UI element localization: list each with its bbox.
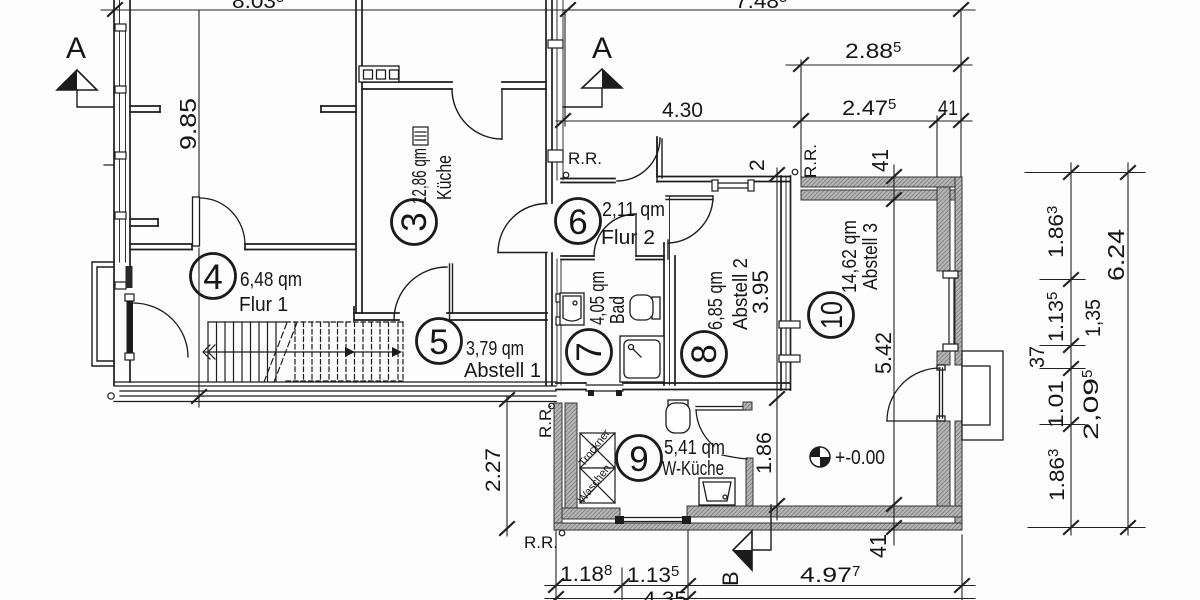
svg-text:Küche: Küche — [434, 155, 456, 200]
wire right connectors — [1025, 172, 1145, 174]
wire 2.27 dim line x507 — [506, 396, 508, 536]
svg-text:9.85: 9.85 — [175, 98, 201, 150]
wall Kueche south y317 — [354, 307, 547, 320]
svg-text:4.30: 4.30 — [662, 99, 703, 122]
svg-text:6,48 qm: 6,48 qm — [240, 269, 302, 291]
svg-text:5: 5 — [429, 323, 448, 362]
svg-text:Abstell 1: Abstell 1 — [464, 360, 541, 382]
wall Abstell2 east x781-800 — [781, 176, 791, 390]
wire extension x556 bottom — [555, 530, 557, 600]
radiator Kueche — [413, 127, 428, 145]
svg-text:14,62 qm: 14,62 qm — [839, 220, 861, 293]
window in Abstell2 north wall — [712, 180, 754, 191]
door Abstell2: leaf + arc — [666, 196, 713, 243]
door Flur2 to Bad: leaf + arc — [594, 214, 668, 259]
hatched wall Abstell3 east — [937, 177, 962, 530]
entry landing outside east — [962, 351, 1003, 440]
svg-text:9: 9 — [629, 440, 648, 479]
svg-text:1.86: 1.86 — [753, 432, 776, 474]
node section marker B bottom — [733, 531, 752, 570]
wall Bad/Abstell2 south y386 — [556, 383, 790, 390]
bottom wall of upper building y382-402 — [114, 382, 556, 402]
node circle 5 Abstell1 — [417, 319, 462, 364]
svg-text:5,41 qm: 5,41 qm — [664, 437, 725, 459]
chimney hatched block west wall — [126, 266, 133, 288]
door W-Kueche: leaf + arc — [696, 402, 752, 446]
toilet W-Kueche — [666, 400, 690, 433]
svg-text:6.24: 6.24 — [1103, 229, 1129, 281]
svg-text:2.27: 2.27 — [482, 448, 505, 492]
wall Abstell2 west x664-675 — [664, 196, 675, 385]
wall Abstell2 north y180 — [657, 137, 790, 182]
wall stub interior y108 left — [130, 106, 160, 112]
node circle 6 Flur2 — [556, 199, 601, 244]
svg-text:1.01: 1.01 — [1045, 380, 1068, 428]
door Kueche to Flur2: leaf + arc — [498, 204, 547, 253]
svg-text:4.977: 4.977 — [800, 563, 860, 587]
svg-text:8: 8 — [685, 344, 724, 363]
wire bottom dim line y585 — [545, 585, 975, 587]
svg-text:+-0.00: +-0.00 — [835, 447, 885, 469]
svg-text:41: 41 — [865, 534, 891, 558]
svg-text:A: A — [66, 32, 86, 65]
wire bottom dim line y598 — [545, 598, 975, 600]
stairs break dashed diagonals — [264, 320, 298, 382]
window block on east wall near Flur2 — [548, 40, 563, 162]
entry door arc — [133, 303, 188, 357]
svg-text:R.R.: R.R. — [524, 533, 558, 552]
node circle 7 Bad — [567, 330, 612, 375]
wall between big room and Kueche x356 — [356, 0, 362, 313]
node circle 8 Abstell2 — [682, 332, 727, 377]
hatched wall south (bottom) — [554, 506, 962, 530]
svg-text:4.35: 4.35 — [643, 588, 687, 600]
svg-text:A: A — [592, 32, 612, 65]
markers and misc symbols — [57, 32, 885, 586]
shower Bad — [620, 336, 664, 382]
washbasin Bad — [560, 293, 584, 325]
svg-text:3,79 qm: 3,79 qm — [466, 338, 524, 360]
svg-text:Bad: Bad — [607, 296, 629, 324]
svg-text:W-Küche: W-Küche — [662, 458, 724, 480]
wire 5.42/41 dim line x894 — [893, 165, 895, 545]
dimension verticals and chains — [192, 10, 1145, 600]
wire 2.88 dim line y65 — [786, 64, 972, 66]
toilet Bad — [630, 295, 660, 320]
wire extension x961 — [960, 10, 962, 177]
porch outline west — [92, 262, 114, 366]
svg-text:2.885: 2.885 — [845, 39, 901, 63]
wire 3.95/1.86 dim line x777 — [776, 168, 778, 520]
hatched wall W-Kueche west — [554, 403, 577, 530]
wire extension x962 bottom — [961, 535, 963, 600]
svg-text:3: 3 — [395, 212, 434, 231]
appliance box Waschen — [580, 468, 615, 503]
small circle at west end of bottom wall — [108, 393, 114, 399]
wire extension x937 — [936, 116, 938, 177]
svg-text:41: 41 — [867, 149, 893, 172]
window in Bad south wall — [586, 385, 623, 396]
dimension texts rotated — [175, 98, 1129, 558]
svg-text:Abstell 3: Abstell 3 — [860, 223, 882, 290]
wall Kueche north y85 right segment — [502, 82, 546, 89]
svg-text:R.R.: R.R. — [801, 144, 820, 178]
svg-text:41: 41 — [938, 97, 958, 120]
svg-text:4: 4 — [203, 258, 222, 297]
svg-text:2,11 qm: 2,11 qm — [602, 199, 665, 221]
kitchen sideboard 3 squares — [359, 66, 399, 82]
svg-text:Flur 1: Flur 1 — [239, 294, 288, 316]
svg-text:1,35: 1,35 — [1082, 299, 1105, 337]
window blocks Abstell1 east wall — [556, 294, 565, 325]
sink W-Kueche — [699, 478, 735, 505]
node circle 3 Kueche — [392, 200, 437, 245]
wall separation x546-563 (Kueche east / Flur2+Bad west) — [546, 0, 563, 385]
wall left exterior (west) of big room — [114, 0, 130, 385]
window blocks Abstell2 east wall — [779, 321, 800, 362]
node level marker +-0.00 — [810, 447, 885, 469]
svg-text:7: 7 — [570, 342, 609, 361]
svg-text:2,095: 2,095 — [1079, 370, 1103, 440]
svg-text:10: 10 — [814, 301, 849, 329]
svg-text:4,05 qm: 4,05 qm — [587, 271, 609, 325]
dimension texts horizontal — [560, 39, 958, 600]
svg-text:5.42: 5.42 — [871, 332, 896, 374]
wall Flur2 north y180 — [561, 179, 615, 183]
wall Flur1 north y246 — [130, 244, 356, 250]
appliance box Trockner — [580, 433, 615, 468]
wall stub W-Kueche east x746-753 — [746, 458, 753, 506]
window sill blocks on west wall — [115, 24, 126, 289]
door Abstell1: leaf + arc — [394, 264, 453, 320]
wall stub interior y108 right — [321, 106, 356, 112]
stairs lower flight solid treads — [208, 322, 286, 381]
svg-text:2: 2 — [746, 159, 769, 171]
stairs walk line with arrows — [203, 345, 402, 359]
wire extension x688 bottom — [687, 530, 689, 600]
wall Flur2/Bad y257 — [561, 256, 664, 260]
svg-text:6: 6 — [568, 203, 587, 242]
leader line from label to door — [722, 455, 747, 459]
window in south wall of W-Kueche area — [615, 516, 691, 524]
node circle 4 Flur1 — [191, 254, 236, 299]
wire extension x801 — [800, 60, 802, 177]
window Abstell3 east wall — [943, 271, 958, 351]
wire extension x565 top — [564, 10, 566, 126]
room labels — [191, 148, 883, 481]
wire mark west y165 — [104, 164, 114, 166]
svg-text:6,85 qm: 6,85 qm — [705, 271, 727, 330]
svg-text:37: 37 — [1026, 346, 1049, 368]
svg-text:12,86 qm: 12,86 qm — [409, 148, 431, 204]
wire top dimension line 8.03/7.48 — [101, 3, 975, 16]
door Flur1/big room: leaf + arc — [193, 197, 246, 246]
svg-text:Abstell 2: Abstell 2 — [730, 258, 752, 330]
door Kueche north: leaf and arc — [452, 89, 502, 139]
wall Kueche north y85 left segment with pass-through — [362, 82, 452, 89]
node circle 10 Abstell3 — [809, 293, 854, 338]
wall stub window-side y222 — [130, 219, 158, 226]
stairs upper flight dashed treads — [286, 322, 404, 381]
door Abstell3 entry: leaf + arc — [887, 365, 945, 421]
wire right chain line x1128 — [1127, 163, 1129, 535]
door Flur2 exterior north: leaf + arc — [617, 138, 662, 182]
wire 9.85 dim line x199 — [198, 10, 200, 196]
entry door black leaf with hinge blocks — [125, 294, 134, 360]
svg-text:R.R.: R.R. — [568, 149, 602, 168]
wire right chain line x1071 — [1070, 163, 1072, 535]
node circle 9 W-Kueche — [617, 436, 662, 481]
svg-text:Flur 2: Flur 2 — [601, 227, 655, 249]
wire 4.30/2.47/41 dim line y121 — [556, 120, 972, 122]
wire extension x622 bottom — [621, 568, 623, 600]
hatched wall Abstell3 north — [801, 177, 961, 200]
svg-text:B: B — [718, 571, 743, 586]
